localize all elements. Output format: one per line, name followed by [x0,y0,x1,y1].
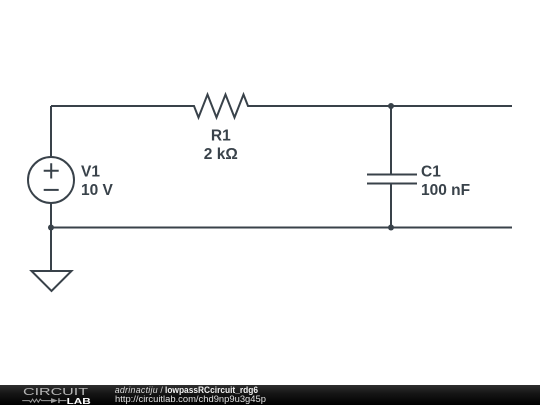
svg-text:V1: V1 [81,164,100,181]
svg-text:2 kΩ: 2 kΩ [204,146,238,163]
svg-text:R1: R1 [211,127,231,144]
svg-text:10 V: 10 V [81,182,114,199]
svg-text:100 nF: 100 nF [421,182,470,199]
svg-text:C1: C1 [421,163,441,180]
svg-text:LAB: LAB [67,396,91,405]
